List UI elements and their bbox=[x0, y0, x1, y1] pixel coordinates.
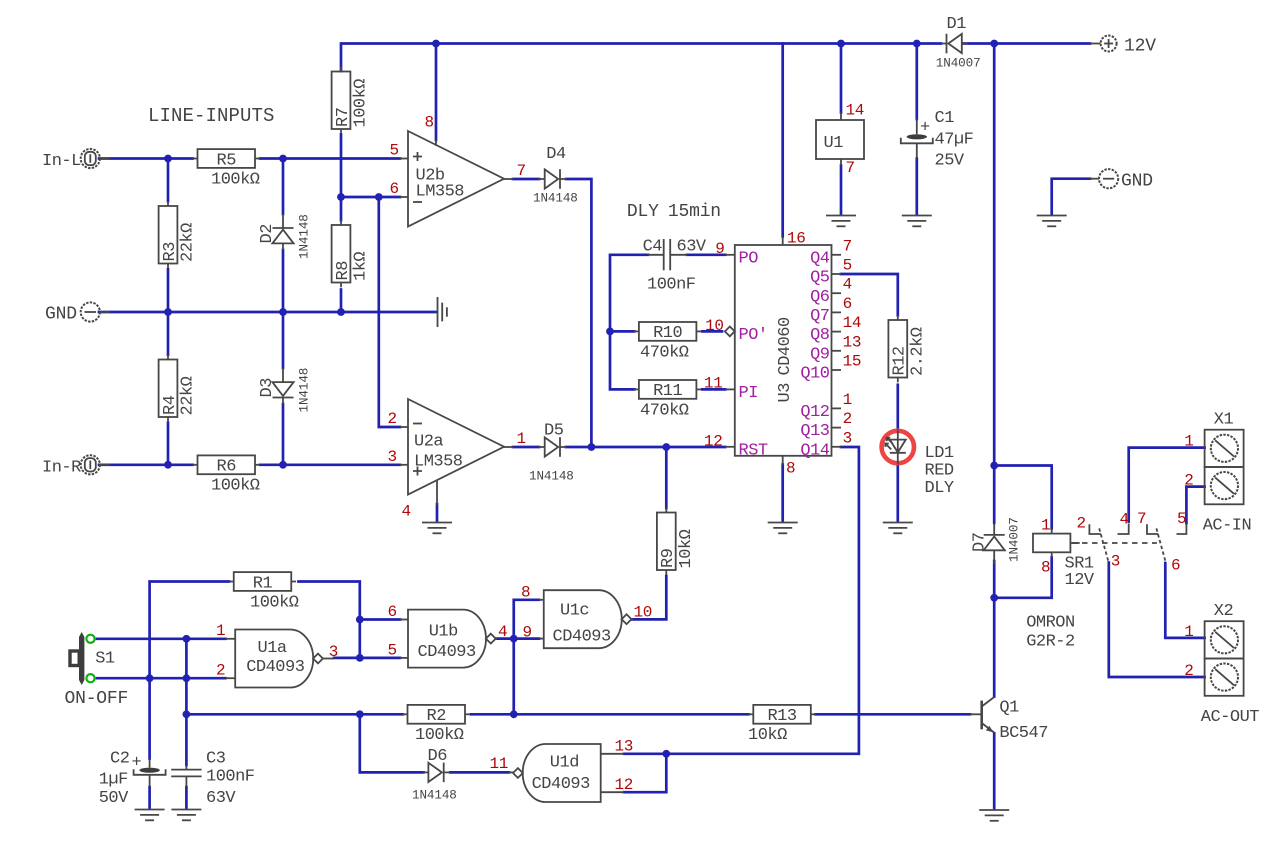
svg-text:6: 6 bbox=[1171, 557, 1180, 575]
svg-text:22kΩ: 22kΩ bbox=[179, 223, 198, 262]
junction bbox=[164, 155, 172, 163]
ground (C1) bbox=[902, 216, 932, 227]
svg-text:1N4148: 1N4148 bbox=[533, 191, 578, 205]
svg-text:470kΩ: 470kΩ bbox=[640, 401, 689, 420]
svg-text:1N4148: 1N4148 bbox=[529, 470, 574, 484]
wire CD4060 pin 8 to ground bbox=[781, 465, 784, 522]
svg-text:C2: C2 bbox=[110, 750, 129, 769]
svg-text:100kΩ: 100kΩ bbox=[250, 593, 299, 612]
relay type label OMRON G2R-2 bbox=[1026, 614, 1075, 652]
svg-text:U3: U3 bbox=[776, 383, 795, 403]
svg-text:4: 4 bbox=[402, 503, 411, 521]
junction bbox=[375, 193, 383, 201]
IC U3 left pin stubs bbox=[725, 237, 783, 465]
svg-text:Q1: Q1 bbox=[999, 699, 1019, 718]
junction bbox=[990, 462, 998, 470]
svg-text:X1: X1 bbox=[1214, 411, 1234, 430]
svg-text:S1: S1 bbox=[95, 650, 115, 669]
resistor R3 bbox=[159, 201, 198, 268]
svg-text:13: 13 bbox=[615, 738, 634, 756]
svg-text:LM358: LM358 bbox=[416, 183, 465, 202]
op-amp U2b labels bbox=[400, 140, 514, 202]
transistor Q1 BC547 bbox=[970, 697, 1048, 743]
svg-text:Q9: Q9 bbox=[810, 345, 830, 364]
svg-text:100kΩ: 100kΩ bbox=[211, 477, 260, 496]
svg-text:R4: R4 bbox=[161, 395, 180, 415]
wire RST row to CD4060 pin 12 bbox=[591, 446, 725, 449]
ground (Q1 emitter) bbox=[979, 810, 1009, 821]
junction bbox=[183, 674, 191, 682]
wire R10 left branch bbox=[610, 330, 634, 333]
wire 12V supply stub bbox=[1090, 43, 1101, 45]
svg-text:D5: D5 bbox=[544, 422, 564, 441]
svg-text:R10: R10 bbox=[653, 324, 682, 343]
svg-text:5: 5 bbox=[843, 257, 852, 275]
junction bbox=[606, 328, 614, 336]
wire D1 pin stubs bbox=[941, 43, 947, 45]
svg-text:CD4093: CD4093 bbox=[532, 775, 591, 794]
svg-text:1N4148: 1N4148 bbox=[412, 789, 457, 803]
resistor R12 bbox=[888, 315, 927, 382]
svg-text:Q14: Q14 bbox=[800, 441, 829, 460]
wire C2 to ground bbox=[148, 787, 151, 809]
junction bbox=[588, 443, 596, 451]
NAND gate U1c bbox=[544, 590, 632, 648]
capacitor C1 (polarized) bbox=[901, 109, 974, 171]
junction bbox=[837, 40, 845, 48]
svg-text:R11: R11 bbox=[653, 382, 682, 401]
supply +12V bbox=[1101, 36, 1157, 57]
svg-text:PO': PO' bbox=[739, 326, 768, 345]
junction bbox=[183, 710, 191, 718]
wire GND row bbox=[99, 311, 437, 314]
wire D7 to relay pin8 node and Q1 collector bbox=[993, 561, 996, 697]
wire Q1 emitter to ground bbox=[993, 733, 996, 809]
wire In-L node to D2 bbox=[282, 159, 285, 215]
wire C4 left to R10/R11 column bbox=[610, 255, 648, 390]
svg-text:D6: D6 bbox=[428, 747, 448, 766]
wire R3 to GND row bbox=[167, 269, 170, 312]
svg-text:8: 8 bbox=[786, 460, 795, 478]
resistor R2 bbox=[403, 705, 470, 745]
svg-text:12: 12 bbox=[704, 433, 723, 451]
svg-text:1: 1 bbox=[843, 391, 852, 409]
svg-text:U1c: U1c bbox=[560, 602, 589, 621]
wire relay contact 6 to X2 pin1 bbox=[1165, 563, 1204, 638]
pin PO' inverted-input diamond (U3) bbox=[725, 327, 735, 337]
svg-text:2: 2 bbox=[1077, 515, 1086, 533]
wire R5 to U2b pin 5 bbox=[260, 157, 400, 160]
wire R1 left to S1/C2 column bbox=[150, 582, 229, 759]
svg-text:100kΩ: 100kΩ bbox=[415, 726, 464, 745]
wire U2a pin 4 to ground bbox=[436, 504, 439, 522]
IC U3 CD4060 body bbox=[735, 245, 832, 456]
svg-text:1N4148: 1N4148 bbox=[298, 214, 312, 259]
svg-text:5: 5 bbox=[1177, 510, 1186, 528]
svg-text:470kΩ: 470kΩ bbox=[640, 343, 689, 362]
svg-text:63V: 63V bbox=[206, 789, 236, 808]
svg-text:R1: R1 bbox=[253, 574, 273, 593]
svg-text:3: 3 bbox=[843, 429, 852, 447]
svg-text:D2: D2 bbox=[258, 224, 277, 243]
junction bbox=[990, 40, 998, 48]
ground (C3) bbox=[171, 810, 201, 821]
wire U1b pin 6 row bbox=[360, 618, 400, 621]
resistor R5 bbox=[193, 149, 260, 189]
diode D4 bbox=[533, 145, 578, 205]
svg-text:15min: 15min bbox=[668, 202, 721, 222]
wire S1 column down to C3 bbox=[185, 639, 188, 765]
ground (CD4060 pin 8) bbox=[768, 523, 798, 534]
svg-text:GND: GND bbox=[1121, 172, 1153, 192]
LED LD1 with red highlight ring bbox=[882, 430, 914, 465]
wire LD1 to ground bbox=[896, 465, 899, 522]
diode D6 bbox=[412, 747, 457, 803]
svg-text:ON-OFF: ON-OFF bbox=[65, 689, 129, 709]
svg-text:G2R-2: G2R-2 bbox=[1026, 633, 1075, 652]
capacitor C3 bbox=[171, 750, 254, 809]
svg-text:U1: U1 bbox=[824, 134, 844, 153]
svg-text:PI: PI bbox=[739, 384, 758, 403]
svg-text:In-L: In-L bbox=[42, 152, 81, 171]
svg-text:R2: R2 bbox=[427, 707, 446, 726]
svg-text:D3: D3 bbox=[258, 378, 277, 398]
svg-text:8: 8 bbox=[521, 584, 530, 602]
svg-text:U1a: U1a bbox=[258, 639, 287, 658]
supply GND (right) bbox=[1090, 169, 1153, 191]
svg-text:U1b: U1b bbox=[429, 623, 458, 642]
wire R2 row left bbox=[186, 713, 402, 716]
wire +12V top rail from R7 column to D1 bbox=[341, 44, 941, 72]
svg-text:CD4060: CD4060 bbox=[776, 317, 795, 376]
svg-text:22kΩ: 22kΩ bbox=[179, 376, 198, 415]
wire C3 to ground bbox=[185, 787, 188, 809]
node label DLY 15min bbox=[627, 202, 721, 222]
NAND U1c labels bbox=[539, 600, 633, 647]
junction bbox=[183, 635, 191, 643]
wire relay contact 3 to X2 pin2 bbox=[1109, 563, 1205, 678]
wire U2a output to D5 bbox=[513, 446, 539, 449]
wire U1 pin 14 drop bbox=[840, 44, 843, 113]
relay mechanical link (dashed) bbox=[1072, 542, 1157, 544]
svg-text:GND: GND bbox=[45, 305, 77, 325]
wire feedback to U2a pin 2 bbox=[379, 197, 400, 427]
junction bbox=[356, 616, 364, 624]
wire +12V column down to D7 bbox=[993, 44, 996, 524]
IC U3 right pin stubs bbox=[832, 255, 842, 447]
capacitor C2 (polarized) bbox=[99, 750, 166, 809]
svg-text:1N4007: 1N4007 bbox=[1008, 517, 1022, 562]
diode D5 bbox=[529, 422, 574, 484]
junction bbox=[337, 308, 345, 316]
svg-text:C3: C3 bbox=[206, 750, 226, 769]
svg-text:+: + bbox=[920, 119, 930, 138]
resistor R11 bbox=[634, 380, 701, 420]
wire GND row to D3 bbox=[282, 312, 285, 368]
svg-text:LM358: LM358 bbox=[414, 453, 463, 472]
NAND gate U1d bbox=[513, 744, 601, 802]
NAND U1a labels bbox=[226, 639, 335, 678]
svg-text:100kΩ: 100kΩ bbox=[352, 79, 371, 128]
wire R9 bottom to U1c output bbox=[632, 576, 666, 619]
wire R1 right to U1b input column bbox=[299, 582, 360, 658]
junction bbox=[337, 193, 345, 201]
wire D2 pin stubs bbox=[282, 214, 284, 228]
svg-text:CD4093: CD4093 bbox=[553, 628, 612, 647]
svg-text:1N4148: 1N4148 bbox=[298, 368, 312, 413]
svg-text:50V: 50V bbox=[99, 789, 129, 808]
connector X2 bbox=[1205, 621, 1244, 696]
relay coil SR1 bbox=[1033, 529, 1095, 591]
wire D5 to RST junction bbox=[566, 446, 591, 449]
svg-text:D7: D7 bbox=[971, 533, 990, 552]
junction bbox=[356, 710, 364, 718]
diode D2 bbox=[258, 214, 312, 259]
svg-text:LD1: LD1 bbox=[925, 444, 954, 463]
svg-text:7: 7 bbox=[846, 159, 855, 177]
svg-text:DLY: DLY bbox=[627, 202, 659, 222]
svg-text:U1d: U1d bbox=[550, 754, 579, 773]
op-amp U2b bbox=[408, 131, 504, 227]
junction bbox=[279, 308, 287, 316]
svg-text:5: 5 bbox=[388, 642, 397, 660]
resistor R4 bbox=[159, 355, 198, 422]
op-amp U2a labels bbox=[400, 424, 514, 506]
junction bbox=[510, 635, 518, 643]
junction bbox=[356, 654, 364, 662]
svg-text:5: 5 bbox=[390, 142, 399, 160]
svg-text:In-R: In-R bbox=[42, 458, 81, 477]
NAND gate U1b bbox=[408, 610, 496, 668]
svg-text:6: 6 bbox=[843, 295, 852, 313]
svg-text:12: 12 bbox=[615, 776, 634, 794]
wire D6 to U1d pin 11 bbox=[450, 771, 509, 774]
ground (GND supply) bbox=[1037, 216, 1067, 227]
svg-text:16: 16 bbox=[787, 229, 806, 247]
svg-text:R5: R5 bbox=[217, 151, 237, 170]
junction bbox=[662, 750, 670, 758]
svg-text:R8: R8 bbox=[334, 261, 353, 281]
wire U2b pin 8 power drop bbox=[435, 44, 438, 141]
svg-text:63V: 63V bbox=[677, 237, 707, 256]
svg-text:D1: D1 bbox=[947, 15, 967, 34]
svg-text:2: 2 bbox=[216, 662, 225, 680]
wire U1a output to U1b pin 5 bbox=[334, 657, 400, 660]
wire Q14 output down to U1d inputs bbox=[666, 447, 859, 754]
resistor R1 bbox=[229, 572, 299, 612]
svg-text:RED: RED bbox=[925, 462, 954, 481]
wire R12 to LD1 bbox=[896, 385, 899, 430]
ground (U2a pin 4) bbox=[422, 523, 452, 534]
wire D4 to RST column bbox=[566, 179, 591, 447]
junction bbox=[990, 594, 998, 602]
wire R2 right to R13 bbox=[471, 713, 749, 716]
wire R4 to In-R row bbox=[167, 423, 170, 465]
wire RST node down to R9 bbox=[665, 447, 668, 508]
ground (U1 pin 7) bbox=[826, 216, 856, 227]
svg-text:1: 1 bbox=[1041, 517, 1050, 535]
svg-text:11: 11 bbox=[490, 755, 509, 773]
svg-text:1: 1 bbox=[1184, 623, 1193, 641]
svg-text:AC-IN: AC-IN bbox=[1203, 517, 1252, 536]
svg-text:Q12: Q12 bbox=[800, 403, 829, 422]
ground (LD1) bbox=[883, 523, 913, 534]
connector X1 labels bbox=[1203, 411, 1252, 536]
svg-text:10: 10 bbox=[634, 604, 653, 622]
svg-text:2: 2 bbox=[843, 410, 852, 428]
svg-text:Q4: Q4 bbox=[810, 249, 830, 268]
svg-text:1N4007: 1N4007 bbox=[936, 57, 981, 71]
svg-text:47µF: 47µF bbox=[935, 131, 974, 150]
svg-text:1: 1 bbox=[216, 622, 225, 640]
NAND gate U1a bbox=[235, 630, 323, 688]
junction bbox=[913, 40, 921, 48]
svg-text:10: 10 bbox=[705, 317, 724, 335]
svg-text:2: 2 bbox=[1184, 472, 1193, 490]
ground (C2) bbox=[135, 810, 165, 821]
svg-text:7: 7 bbox=[843, 237, 852, 255]
svg-text:100kΩ: 100kΩ bbox=[211, 170, 260, 189]
svg-text:DLY: DLY bbox=[925, 479, 954, 498]
svg-text:6: 6 bbox=[388, 603, 397, 621]
wire U1c pin 8 branch bbox=[514, 600, 539, 639]
relay contact pole 1 (pins 2-3-4) bbox=[1089, 524, 1128, 562]
junction bbox=[164, 461, 172, 469]
svg-text:R12: R12 bbox=[891, 346, 910, 375]
wire In-L row bbox=[99, 157, 193, 160]
svg-text:8: 8 bbox=[1041, 559, 1050, 577]
svg-text:10kΩ: 10kΩ bbox=[748, 726, 787, 745]
resistor R10 bbox=[634, 322, 701, 362]
switch S1 ON-OFF bbox=[65, 632, 129, 709]
svg-text:RST: RST bbox=[739, 441, 768, 460]
wire D7 pin stubs bbox=[993, 523, 995, 535]
svg-text:12V: 12V bbox=[1124, 37, 1156, 57]
junction bbox=[164, 308, 172, 316]
svg-text:7: 7 bbox=[1137, 510, 1146, 528]
wire S1 to U1a pin 1 bbox=[97, 637, 226, 640]
diode D3 bbox=[258, 368, 312, 413]
svg-text:3: 3 bbox=[329, 643, 338, 661]
svg-text:7: 7 bbox=[517, 162, 526, 180]
wire GND supply to earth bbox=[1052, 179, 1090, 215]
wire GND row to R4 bbox=[167, 312, 170, 355]
svg-text:R7: R7 bbox=[334, 108, 353, 127]
junction bbox=[279, 155, 287, 163]
svg-text:Q7: Q7 bbox=[810, 307, 829, 326]
svg-text:1µF: 1µF bbox=[99, 771, 128, 790]
wire D5 pin stubs bbox=[539, 446, 545, 448]
connector X1 bbox=[1205, 430, 1244, 505]
svg-text:C1: C1 bbox=[935, 109, 955, 128]
svg-text:PO: PO bbox=[739, 249, 759, 268]
svg-text:Q8: Q8 bbox=[810, 326, 830, 345]
svg-text:2: 2 bbox=[388, 410, 397, 428]
pin GND (left) bbox=[45, 302, 110, 324]
wire C4 right to CD4060 pin 9 (PO) bbox=[687, 253, 725, 256]
wire R10 right to PO' diamond bbox=[702, 330, 722, 333]
wire In-R row bbox=[99, 463, 193, 466]
svg-text:11: 11 bbox=[704, 375, 723, 393]
wire U2b output to D4 bbox=[513, 178, 539, 181]
wire U1b output down to R2 row bbox=[512, 639, 515, 715]
wire CD4060 pin 16 drop from rail bbox=[781, 44, 784, 237]
junction bbox=[279, 461, 287, 469]
svg-text:10kΩ: 10kΩ bbox=[677, 529, 696, 568]
svg-text:Q13: Q13 bbox=[800, 422, 829, 441]
svg-text:14: 14 bbox=[843, 314, 862, 332]
wire X1 pin2 to relay contact 5 bbox=[1186, 487, 1204, 523]
svg-text:9: 9 bbox=[523, 624, 532, 642]
svg-text:CD4093: CD4093 bbox=[418, 643, 477, 662]
svg-text:3: 3 bbox=[1111, 553, 1120, 571]
svg-text:Q6: Q6 bbox=[810, 288, 830, 307]
svg-text:2: 2 bbox=[1184, 662, 1193, 680]
op-amp U2a bbox=[408, 399, 504, 495]
wire U2b pin 6 row bbox=[341, 196, 400, 199]
wire D6 pin stubs bbox=[423, 771, 428, 773]
wire U1d pin 13 bbox=[624, 752, 666, 755]
svg-text:8: 8 bbox=[425, 114, 434, 132]
wire D3 pin stubs bbox=[282, 368, 284, 382]
svg-text:6: 6 bbox=[390, 180, 399, 198]
svg-text:OMRON: OMRON bbox=[1026, 614, 1075, 633]
wire U1 pin 7 to ground bbox=[840, 166, 843, 215]
wire relay coil pin 8 return bbox=[994, 558, 1051, 598]
wire Q5 to R12 bbox=[841, 274, 898, 315]
wire R13 to Q1 base bbox=[816, 713, 971, 716]
svg-text:4: 4 bbox=[843, 276, 852, 294]
resistor R8 bbox=[332, 220, 371, 287]
svg-text:D4: D4 bbox=[546, 145, 566, 164]
wire branch down to D6 bbox=[360, 714, 424, 772]
wire relay coil pin 1 branch bbox=[994, 466, 1051, 529]
resistor R7 bbox=[332, 67, 371, 134]
wire C1 top drop bbox=[915, 44, 918, 120]
wire X1 pin1 to relay contact 4 bbox=[1129, 448, 1205, 522]
svg-text:1kΩ: 1kΩ bbox=[352, 252, 371, 281]
svg-text:R9: R9 bbox=[659, 548, 678, 568]
svg-text:100nF: 100nF bbox=[206, 768, 255, 787]
svg-text:100nF: 100nF bbox=[647, 276, 696, 295]
wire R7 to R8 with pin6 tap bbox=[340, 134, 343, 220]
svg-text:2.2kΩ: 2.2kΩ bbox=[908, 327, 927, 376]
IC U1 power box bbox=[816, 113, 864, 166]
diode D7 bbox=[971, 517, 1022, 562]
NAND U1b labels bbox=[400, 620, 497, 663]
wire D4 pin stubs bbox=[539, 178, 545, 180]
svg-text:13: 13 bbox=[843, 333, 862, 351]
wire R8 bottom to GND row bbox=[340, 290, 343, 313]
svg-text:3: 3 bbox=[388, 448, 397, 466]
wire S1 to U1a pin 2 bbox=[97, 677, 226, 680]
svg-text:+: + bbox=[132, 754, 142, 773]
junction bbox=[662, 443, 670, 451]
svg-text:15: 15 bbox=[843, 353, 862, 371]
svg-text:1: 1 bbox=[517, 430, 526, 448]
svg-text:4: 4 bbox=[498, 623, 507, 641]
wire R6 to U2a pin 3 bbox=[260, 463, 400, 466]
svg-text:X2: X2 bbox=[1214, 602, 1233, 621]
resistor R9 bbox=[657, 508, 696, 575]
wire R11 right to PI bbox=[702, 388, 725, 391]
ground (GND row, rotated) bbox=[438, 297, 447, 327]
svg-text:14: 14 bbox=[846, 102, 865, 120]
wire D3 to In-R row bbox=[282, 404, 285, 465]
svg-text:Q10: Q10 bbox=[800, 365, 829, 384]
wire U1b output to U1c pin 9 bbox=[496, 637, 539, 640]
resistor R6 bbox=[193, 455, 260, 495]
